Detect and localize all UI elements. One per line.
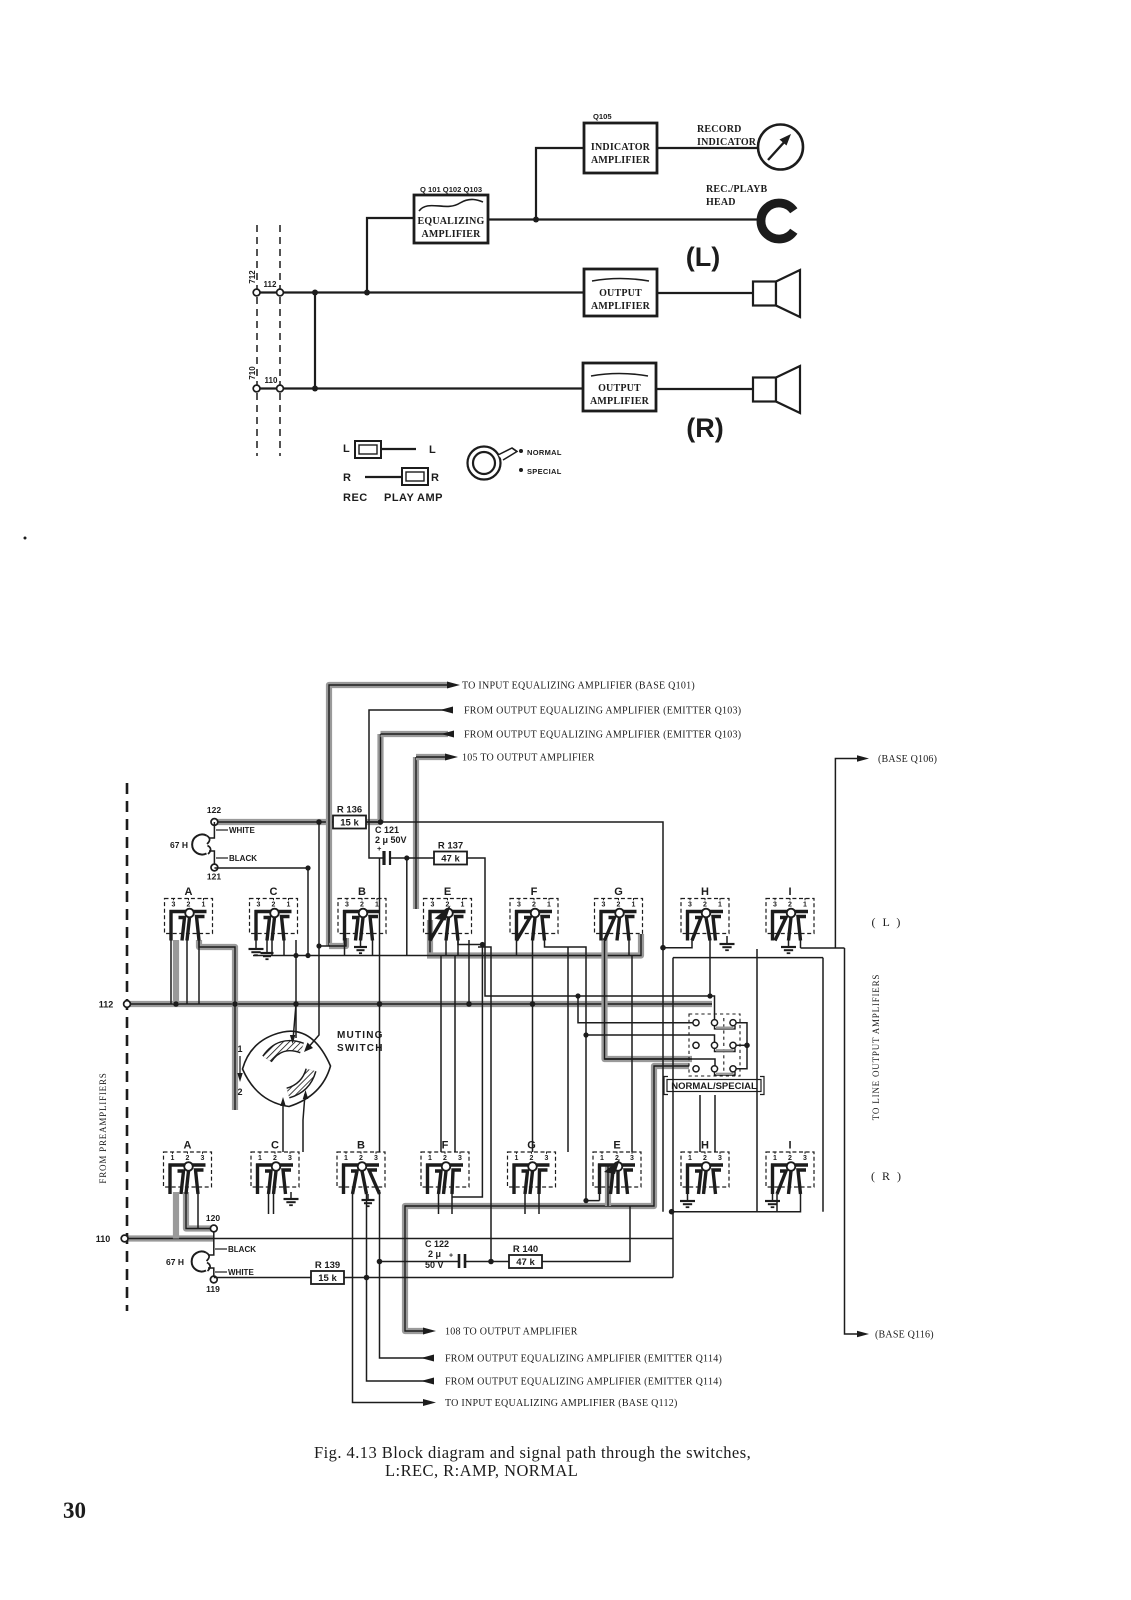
- svg-text:1: 1: [461, 902, 465, 909]
- wire to (BASE Q116): [845, 948, 861, 1334]
- svg-text:FROM PREAMPLIFIERS: FROM PREAMPLIFIERS: [98, 1072, 108, 1183]
- svg-text:2 μ 50V: 2 μ 50V: [375, 835, 407, 845]
- highlighted signal path: A top feeds: [173, 940, 179, 1004]
- ground (switch H top): [726, 936, 728, 944]
- junction: [660, 945, 666, 951]
- resistor R137 47k: [406, 857, 434, 859]
- ground (switch B top): [360, 940, 362, 947]
- svg-text:3: 3: [431, 902, 435, 909]
- terminal 122: [211, 819, 218, 826]
- svg-text:3: 3: [458, 1155, 462, 1162]
- inductor 67H (R channel): [192, 1252, 210, 1272]
- label RECORD INDICATOR: [697, 124, 757, 148]
- wire riser from C122 node up to switch E top area: [478, 947, 491, 1262]
- wire G top drop to G bottom: [532, 940, 534, 1152]
- svg-text:H: H: [701, 1140, 709, 1152]
- junction: [707, 993, 712, 998]
- svg-text:2: 2: [532, 902, 536, 909]
- highlighted signal path: A bottom wiper to terminal 120: [186, 1192, 211, 1229]
- svg-text:(BASE Q106): (BASE Q106): [878, 754, 937, 765]
- highlighted signal path: switch E bottom glyph: [605, 1166, 611, 1194]
- svg-text:3: 3: [773, 902, 777, 909]
- switch E (top row, L channel): [424, 886, 472, 941]
- terminal 110: [277, 385, 284, 392]
- selector right-side link: [736, 1023, 747, 1069]
- svg-text:E: E: [613, 1140, 620, 1152]
- terminal 119: [210, 1276, 217, 1283]
- svg-text:(R): (R): [686, 413, 723, 443]
- svg-text:2: 2: [360, 902, 364, 909]
- svg-text:3: 3: [688, 902, 692, 909]
- svg-text:3: 3: [172, 902, 176, 909]
- wire tie between 112 and 110: [314, 293, 316, 389]
- wire junction up to indicator amplifier: [536, 148, 584, 220]
- svg-text:15 k: 15 k: [340, 818, 359, 829]
- wire I bottom contact: [776, 1194, 778, 1212]
- arrow: 105 to output amplifier: [445, 754, 458, 761]
- ground (switch C top): [255, 940, 257, 949]
- svg-text:SPECIAL: SPECIAL: [527, 467, 562, 476]
- muting switch contact (lower, hatched): [288, 1070, 311, 1093]
- wire output amplifier R to speaker: [656, 388, 753, 390]
- svg-text:R 139: R 139: [315, 1260, 340, 1271]
- wire output amplifier L to speaker: [657, 292, 753, 294]
- legend rotary switch NORMAL/SPECIAL: [468, 447, 562, 480]
- wire C top pin to C bottom: [295, 940, 297, 1004]
- node 710 (dashed bus line): [279, 225, 281, 456]
- arrow: from output equalizing amplifier (emitter Q103) no.2: [441, 731, 454, 738]
- capacitor C122 2u 50V: [380, 1239, 466, 1270]
- svg-text:R 137: R 137: [438, 841, 463, 852]
- svg-text:REC./PLAYB: REC./PLAYB: [706, 184, 767, 195]
- svg-text:R: R: [343, 472, 351, 484]
- terminal 112: [277, 289, 284, 296]
- svg-text:AMP: AMP: [417, 492, 443, 504]
- wire C121 node down to bus: [406, 858, 408, 956]
- svg-text:B: B: [358, 886, 366, 898]
- svg-text:1: 1: [202, 902, 206, 909]
- switch F (bottom row, R channel): [421, 1140, 469, 1195]
- wire I top contacts: [800, 940, 802, 948]
- wire R136 tap down to switch B: [318, 822, 320, 946]
- svg-text:F: F: [442, 1140, 449, 1152]
- svg-text:1: 1: [632, 902, 636, 909]
- junction: [404, 855, 409, 860]
- highlighted signal path: riser into switch E bottom: [605, 1194, 611, 1206]
- terminal 112 (from preamplifier L): [124, 1001, 131, 1008]
- svg-text:AMPLIFIER: AMPLIFIER: [421, 229, 481, 240]
- label MUTING SWITCH: [337, 1030, 384, 1054]
- wire F top right contact to E bottom: [545, 940, 600, 1201]
- output amplifier block (R): [583, 363, 656, 411]
- svg-text:OUTPUT: OUTPUT: [599, 288, 642, 299]
- svg-text:2 μ: 2 μ: [428, 1249, 441, 1259]
- svg-text:(BASE Q116): (BASE Q116): [875, 1330, 934, 1341]
- svg-text:1: 1: [547, 902, 551, 909]
- svg-text:AMPLIFIER: AMPLIFIER: [590, 396, 650, 407]
- svg-text:(L): (L): [686, 242, 720, 272]
- switch A (top row, L channel): [165, 886, 213, 941]
- svg-text:2: 2: [703, 902, 707, 909]
- highlighted signal path: from output equalizing amp (arrow 3): [377, 734, 383, 822]
- junction: [583, 1198, 588, 1203]
- svg-text:47 k: 47 k: [516, 1257, 535, 1268]
- svg-text:1: 1: [803, 902, 807, 909]
- svg-text:WHITE: WHITE: [229, 826, 255, 835]
- wire stubs below switch G bottom: [524, 1194, 526, 1214]
- svg-text:30: 30: [63, 1498, 86, 1523]
- wire E top right contact drop: [468, 940, 470, 1004]
- svg-text:SWITCH: SWITCH: [337, 1043, 384, 1054]
- switch H (top row, L channel): [681, 886, 729, 941]
- resistor R140 47k: [465, 1261, 510, 1263]
- svg-text:RECORD: RECORD: [697, 124, 742, 135]
- junction: [533, 217, 539, 223]
- highlighted signal path: arrow4 label lead: [416, 754, 446, 760]
- switch G (top row, L channel): [595, 886, 643, 941]
- terminal 712: [253, 289, 260, 296]
- svg-text:Q105: Q105: [593, 112, 612, 121]
- svg-text:2: 2: [273, 1155, 277, 1162]
- svg-text:G: G: [527, 1140, 536, 1152]
- svg-text:120: 120: [206, 1213, 220, 1223]
- wire BLACK lead (R): [208, 1243, 214, 1255]
- svg-text:3: 3: [374, 1155, 378, 1162]
- wire 112 to equalizing amplifier input: [367, 218, 414, 293]
- bus under switches C/B: [253, 955, 427, 957]
- switch C (bottom row, R channel): [251, 1140, 299, 1195]
- svg-text:122: 122: [207, 805, 221, 815]
- output amplifier block (L): [584, 269, 657, 316]
- wire riser F column: [452, 940, 482, 1197]
- terminal 120: [210, 1225, 217, 1232]
- switch I (top row, L channel): [766, 886, 814, 941]
- junction: [575, 993, 580, 998]
- inductor 67H (rec/play head winding): [192, 834, 210, 854]
- switch E (bottom row, R channel): [593, 1140, 641, 1195]
- svg-text:1: 1: [688, 1155, 692, 1162]
- terminal 110 (from preamplifier R): [121, 1235, 128, 1242]
- junction: [312, 386, 318, 392]
- wire vertical right of normal/special: [756, 949, 758, 1212]
- legend slider R (AMP position): [343, 468, 439, 485]
- resistor R136 15k: [365, 821, 381, 823]
- svg-text:2: 2: [272, 902, 276, 909]
- svg-text:2: 2: [788, 1155, 792, 1162]
- svg-text:3: 3: [630, 1155, 634, 1162]
- svg-text:C: C: [271, 1140, 279, 1152]
- junction: [364, 290, 370, 296]
- speaker (L): [753, 270, 800, 317]
- wire B top pin3 long drop: [379, 858, 381, 1152]
- wire indicator amplifier to record indicator meter: [657, 147, 758, 149]
- wire WHITE lead (R): [208, 1268, 214, 1276]
- highlighted signal path: 122/WHITE through R136: [214, 819, 381, 825]
- svg-text:2: 2: [359, 1155, 363, 1162]
- junction: [488, 1259, 494, 1265]
- junction dots on 112 line: [173, 1001, 179, 1007]
- switch G (bottom row, R channel): [508, 1140, 556, 1195]
- svg-text:105 TO OUTPUT AMPLIFIER: 105 TO OUTPUT AMPLIFIER: [462, 753, 595, 764]
- wire WHITE lead: [209, 822, 214, 838]
- svg-text:110: 110: [265, 376, 278, 385]
- ground (switch I top): [788, 940, 790, 947]
- svg-text:+: +: [377, 844, 382, 853]
- highlighted signal path: to input equalizing amplifier (arrow 1): [329, 685, 448, 946]
- svg-text:15 k: 15 k: [318, 1273, 337, 1284]
- wire C top contacts to ground bus: [271, 940, 273, 956]
- svg-text:BLACK: BLACK: [228, 1245, 256, 1254]
- wire from output equalizing amplifier (emitter Q114) no.2: [367, 1190, 434, 1381]
- junction: [377, 1259, 383, 1265]
- wire R139 to right side: [344, 1277, 673, 1279]
- svg-text:119: 119: [206, 1284, 220, 1294]
- svg-text:1: 1: [344, 1155, 348, 1162]
- wire G top contacts: [628, 940, 630, 956]
- wire 112 line to output amplifier L: [257, 291, 584, 293]
- svg-text:INDICATOR: INDICATOR: [591, 142, 651, 153]
- svg-text:3: 3: [288, 1155, 292, 1162]
- junction: [744, 1043, 750, 1049]
- wire stubs below switch F bottom: [438, 1194, 440, 1214]
- switch B (top row, L channel): [338, 886, 386, 941]
- terminal 710: [253, 385, 260, 392]
- svg-text:3: 3: [201, 1155, 205, 1162]
- svg-text:110: 110: [96, 1234, 111, 1244]
- svg-text:67 H: 67 H: [170, 840, 188, 850]
- equalizing amplifier block Q101 Q102 Q103: [414, 195, 488, 243]
- svg-text:1: 1: [287, 902, 291, 909]
- svg-text:1: 1: [600, 1155, 604, 1162]
- junction: [378, 819, 384, 825]
- svg-text:3: 3: [545, 1155, 549, 1162]
- selector shorting bars: [715, 1026, 736, 1029]
- svg-text:1: 1: [718, 902, 722, 909]
- svg-text:L: L: [429, 444, 436, 456]
- svg-text:710: 710: [248, 366, 257, 380]
- svg-text:C: C: [270, 886, 278, 898]
- ground (switch C top, second): [266, 940, 268, 953]
- svg-text:INDICATOR: INDICATOR: [697, 137, 757, 148]
- highlighted signal path: arrow1 elbow to switch B: [329, 938, 346, 946]
- svg-text:3: 3: [602, 902, 606, 909]
- wire R140 output: [542, 1206, 630, 1262]
- svg-text:2: 2: [788, 902, 792, 909]
- wire G wiper to normal/special row3 mid contact: [605, 1059, 716, 1066]
- resistor R139 15k: [214, 1277, 312, 1279]
- svg-text:FROM OUTPUT EQUALIZING AMPLIFI: FROM OUTPUT EQUALIZING AMPLIFIER (EMITTE…: [464, 706, 741, 717]
- svg-text:WHITE: WHITE: [228, 1268, 254, 1277]
- wire stubs below switch C bottom: [268, 1194, 270, 1214]
- svg-text:2: 2: [530, 1155, 534, 1162]
- svg-text:2: 2: [443, 1155, 447, 1162]
- wire riser normal/special row1 feed: [578, 996, 693, 1023]
- junction: [480, 942, 485, 947]
- svg-text:HEAD: HEAD: [706, 197, 736, 208]
- wire 110 line to output amplifier R: [257, 387, 583, 389]
- wire 121 to emitter Q103 return: [214, 867, 308, 869]
- svg-text:( L ): ( L ): [872, 915, 903, 929]
- wire F bottom feeds: [440, 956, 442, 1153]
- svg-text:I: I: [788, 886, 791, 898]
- svg-text:TO INPUT EQUALIZING AMPLIFIER: TO INPUT EQUALIZING AMPLIFIER (BASE Q101…: [462, 681, 695, 692]
- wire R137 output down to normal/special row1: [467, 858, 715, 1020]
- wire from muting lower contact down to switch C bottom: [282, 1101, 284, 1152]
- switch F (top row, L channel): [510, 886, 558, 941]
- switch I (bottom row, R channel): [766, 1140, 814, 1195]
- wire E top contacts: [445, 940, 447, 956]
- svg-text:R 140: R 140: [513, 1244, 538, 1255]
- ground (switch I bottom): [772, 1194, 774, 1201]
- highlighted signal path: 105 to output amplifier (arrow 4): [413, 757, 419, 909]
- wire from output equalizing amplifier (emitter Q114) no.1: [380, 1190, 434, 1358]
- selector contacts: [693, 1020, 699, 1026]
- svg-text:AMPLIFIER: AMPLIFIER: [591, 155, 651, 166]
- wire F top contacts: [516, 940, 518, 956]
- svg-text:PLAY: PLAY: [384, 492, 414, 504]
- arrow: 108 to output amplifier: [423, 1328, 436, 1335]
- svg-text:B: B: [357, 1140, 365, 1152]
- muting switch body: [243, 1031, 331, 1106]
- wire 120 to q112 feed: [213, 1232, 215, 1243]
- svg-text:AMPLIFIER: AMPLIFIER: [591, 301, 651, 312]
- svg-text:A: A: [184, 1140, 192, 1152]
- svg-text:47 k: 47 k: [441, 854, 460, 865]
- svg-text:Fig. 4.13 Block diagram and s: Fig. 4.13 Block diagram and signal path …: [314, 1443, 751, 1462]
- svg-text:FROM OUTPUT EQUALIZING AMPLIFI: FROM OUTPUT EQUALIZING AMPLIFIER (EMITTE…: [464, 730, 741, 741]
- junction: [305, 953, 310, 958]
- svg-text:FROM OUTPUT EQUALIZING AMPLIFI: FROM OUTPUT EQUALIZING AMPLIFIER (EMITTE…: [445, 1377, 722, 1388]
- svg-text:1: 1: [428, 1155, 432, 1162]
- wire R136 to H column: [381, 822, 663, 1212]
- stray mark: [24, 537, 27, 540]
- svg-text:MUTING: MUTING: [337, 1030, 384, 1041]
- ground (switch C bottom): [290, 1192, 292, 1199]
- wire right side bus H/I: [673, 957, 823, 959]
- svg-text:112: 112: [264, 280, 277, 289]
- switch B (bottom row, R channel): [337, 1140, 385, 1195]
- junction: [583, 1032, 588, 1037]
- wire E bottom feed: [631, 956, 633, 1153]
- wire into muting upper contact: [293, 1004, 296, 1040]
- svg-text:EQUALIZING: EQUALIZING: [417, 216, 484, 227]
- terminal 121: [211, 864, 218, 871]
- wire from muting lower contact (right): [303, 1094, 305, 1152]
- svg-text:67 H: 67 H: [166, 1257, 184, 1267]
- rec/playb head symbol: [761, 203, 794, 239]
- ground (switch H bottom): [687, 1194, 689, 1201]
- wire A top contacts down to 112 bus: [170, 940, 172, 1004]
- node 712 (dashed bus line): [256, 225, 258, 456]
- svg-text:G: G: [614, 886, 623, 898]
- svg-text:1: 1: [258, 1155, 262, 1162]
- svg-text:FROM OUTPUT EQUALIZING AMPLIFI: FROM OUTPUT EQUALIZING AMPLIFIER (EMITTE…: [445, 1354, 722, 1365]
- left dashed bus from preamplifiers: [126, 783, 129, 1311]
- wire E bottom leg stub: [599, 1194, 601, 1201]
- svg-text:3: 3: [257, 902, 261, 909]
- wire bottom bus right section: [672, 1194, 801, 1212]
- svg-text:1: 1: [171, 1155, 175, 1162]
- svg-text:3: 3: [345, 902, 349, 909]
- wire normal/special to H bottom: [699, 1095, 701, 1152]
- svg-text:H: H: [701, 886, 709, 898]
- wire from output equalizing amplifier (emitter Q103) no.1: [369, 710, 452, 858]
- svg-text:BLACK: BLACK: [229, 854, 257, 863]
- svg-text:TO INPUT EQUALIZING AMPLIFIER: TO INPUT EQUALIZING AMPLIFIER (BASE Q112…: [445, 1398, 678, 1409]
- svg-text:3: 3: [517, 902, 521, 909]
- legend slider L (REC position): [343, 441, 436, 458]
- junction: [364, 1275, 370, 1281]
- wire H top left contact: [663, 940, 692, 948]
- highlighted signal path: 112 line from preamp: [127, 1001, 712, 1007]
- muting travel arrow 1 to 2: [239, 1056, 241, 1077]
- highlighted signal path: riser into switch A bottom: [173, 1192, 179, 1239]
- svg-text:112: 112: [99, 1000, 114, 1010]
- ground (switch B bottom): [367, 1194, 369, 1200]
- wire into muting upper contact from right: [307, 946, 319, 1049]
- svg-text:3: 3: [718, 1155, 722, 1162]
- normal/special selector dashed box: [689, 1014, 740, 1076]
- svg-text:NORMAL/SPECIAL: NORMAL/SPECIAL: [671, 1081, 757, 1092]
- svg-text:I: I: [788, 1140, 791, 1152]
- switch A (bottom row, R channel): [164, 1140, 212, 1195]
- svg-text:1: 1: [515, 1155, 519, 1162]
- junction: [669, 1209, 675, 1215]
- svg-text:3: 3: [803, 1155, 807, 1162]
- wire to input equalizing amplifier (base Q112): [353, 1190, 429, 1403]
- wire B top contacts: [344, 940, 346, 956]
- svg-text:F: F: [531, 886, 538, 898]
- svg-text:OUTPUT: OUTPUT: [598, 383, 641, 394]
- highlighted signal path: switch E to bus: [427, 920, 433, 956]
- svg-text:REC: REC: [343, 492, 368, 504]
- legend REC PLAY AMP: [343, 492, 443, 504]
- svg-text:NORMAL: NORMAL: [527, 448, 562, 457]
- wire to (BASE Q106): [801, 947, 845, 949]
- svg-text:108 TO OUTPUT AMPLIFIER: 108 TO OUTPUT AMPLIFIER: [445, 1327, 578, 1338]
- junction: [316, 819, 322, 825]
- svg-text:E: E: [444, 886, 451, 898]
- svg-text:2: 2: [703, 1155, 707, 1162]
- wire H top wiper to normal/special row1: [709, 940, 711, 996]
- svg-text:L:REC, R:AMP, NORMAL: L:REC, R:AMP, NORMAL: [385, 1461, 578, 1480]
- svg-text:2: 2: [186, 1155, 190, 1162]
- junction: [305, 865, 310, 870]
- svg-text:L: L: [343, 443, 350, 455]
- svg-text:C 121: C 121: [375, 825, 399, 835]
- switch C (top row, L channel): [250, 886, 298, 941]
- wire bus to normal/special row2: [586, 1035, 715, 1042]
- junction: [312, 290, 318, 296]
- wire 110 line thin continuation: [214, 1238, 673, 1240]
- capacitor C121 2u 50V: [375, 825, 407, 865]
- svg-text:R 136: R 136: [337, 805, 362, 816]
- svg-text:1: 1: [375, 902, 379, 909]
- svg-text:2: 2: [187, 902, 191, 909]
- svg-text:TO LINE OUTPUT AMPLIFIERS: TO LINE OUTPUT AMPLIFIERS: [871, 974, 881, 1120]
- svg-text:712: 712: [248, 270, 257, 284]
- svg-text:A: A: [185, 886, 193, 898]
- speaker (R): [753, 366, 800, 413]
- indicator amplifier block Q105: [584, 123, 657, 173]
- wire A bottom contact stubs: [197, 1194, 199, 1229]
- label NORMAL/SPECIAL: [664, 1077, 764, 1095]
- muting switch contact (upper, hatched): [267, 1046, 302, 1059]
- svg-text:C 122: C 122: [425, 1239, 449, 1249]
- switch H (bottom row, R channel): [681, 1140, 729, 1195]
- svg-text:Q 101 Q102 Q103: Q 101 Q102 Q103: [420, 185, 482, 194]
- svg-text:+: +: [449, 1253, 453, 1260]
